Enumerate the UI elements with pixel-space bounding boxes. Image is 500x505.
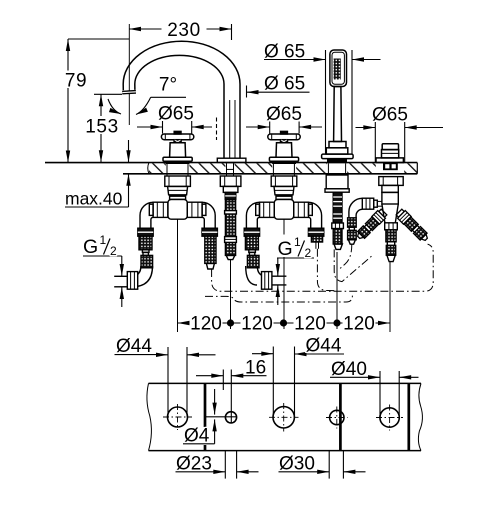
handle1 right braided hose [205,236,216,263]
dim16 left arrow [196,375,223,377]
angle 7 deg leader line [151,96,186,98]
dia65 handle2 left extent tick [269,122,271,134]
dia65 handle2 right arrow [299,126,322,128]
dia65 shower left extent line [325,50,327,154]
valve body handle1 [138,176,218,268]
bottom view bar top edge [149,382,422,384]
spout flange [217,158,246,162]
diverter center chain [385,223,398,262]
through-deck sleeve handle1 [167,163,346,176]
reference line top of spout [68,38,129,40]
hole circle 3 dia44 [273,407,294,428]
dia65 diverter left extent line [374,122,376,162]
dia65 spout left extent tick dashed [216,118,218,141]
dia23 ext line b [236,451,238,479]
dia40 underline+arrow [330,376,380,378]
hand shower head [322,50,354,163]
shower union block [326,175,348,189]
dia65 handle1 left extent tick [162,121,164,134]
dia65 diverter left arrow [356,127,376,129]
angle 7 deg right arc [136,97,151,114]
routing hose line handle1 [205,244,433,302]
svg-text:2: 2 [110,244,117,258]
routing hose line lower jog [205,293,352,302]
svg-text:Ø65: Ø65 [158,104,194,125]
svg-text:1: 1 [100,233,107,247]
handle2 [268,131,300,164]
dia65 handle2 left arrow [246,126,270,128]
deck bottom edge [123,173,417,175]
svg-text:Ø40: Ø40 [331,359,367,380]
svg-text:230: 230 [167,20,201,41]
max40 lower arrow [128,174,130,207]
dia4 tick [205,416,237,418]
svg-text:Ø 65: Ø 65 [264,74,305,95]
dia65 diverter right arrow [405,127,443,129]
dim16 ext line b [230,370,232,424]
diverter left port hex [362,198,373,209]
svg-text:G: G [278,238,293,260]
hole circle 1 dia44 [168,407,188,427]
dia30 ext line a [328,451,330,479]
centerline handle1 [177,219,179,332]
diverter body [382,192,398,204]
spout inner arc [135,55,224,100]
spout right leg outer wall [239,100,241,158]
hand shower wand [334,87,342,142]
dimension 79 line [67,39,69,163]
G half 2 up arrow [277,285,279,305]
dia65 shower right extent line [351,50,353,154]
dim16 ext line a [222,370,224,391]
crosshair hole4 [326,417,348,419]
G half 2 underline [277,257,314,259]
dia4 lower arrow [214,419,216,443]
centerline handle2 [283,219,285,329]
svg-text:16: 16 [245,358,266,379]
centerline diverter [389,262,391,332]
svg-text:Ø65: Ø65 [266,104,302,125]
svg-text:120: 120 [190,314,222,335]
dim16 underline+arrow [231,375,266,377]
dia44 mid ext line b [294,347,296,417]
svg-text:120: 120 [343,314,375,335]
dia40 ext line b [398,371,400,417]
crosshair hole3 [269,416,299,418]
dia65 spout label underline+leader [247,91,310,93]
valve body handle2 [244,176,324,268]
svg-text:153: 153 [85,117,119,138]
spout outlet rim [122,90,136,95]
handle2 left elbow to G half [257,266,266,276]
handle1 [161,131,193,164]
dimension 120 station dot shower [333,319,340,326]
spout right leg inner line B [234,100,236,158]
diverter knob [376,144,403,163]
G half 1 underline [83,255,122,257]
svg-text:Ø44: Ø44 [116,336,152,357]
through-deck sleeve handle2 [272,164,274,176]
hole circle 5 dia40 [380,408,399,427]
svg-text:max.40: max.40 [65,189,123,209]
through-deck block diverter [383,163,398,170]
dimension 120 station dot spout [227,319,234,326]
svg-text:Ø4: Ø4 [184,426,210,447]
dia23 arrow right [212,471,225,473]
svg-text:79: 79 [65,71,87,92]
hole circle 2 dia23 [225,412,236,423]
crosshair hole1 [163,416,192,418]
dia23 underline [176,471,213,473]
routing hose line handle2 [317,249,336,291]
dimension 230 extension line right [231,24,233,40]
joint thick line left [205,383,409,450]
dia65 shower label underline+leader [264,59,326,61]
handle1 left elbow to G half [131,266,141,276]
dimension 120 row line [178,322,391,324]
dia65 handle1 right arrow [192,126,212,128]
dia65 shower right arrow [352,59,381,61]
spout shank bracket [220,176,241,186]
diverter mounting nut [379,177,403,186]
deck left break edge [148,163,149,174]
dia40 right arrow [399,376,418,378]
G half 1 up arrow [121,287,123,307]
dimension 153 line [100,94,102,162]
deck top edge [45,162,417,164]
bottom view right break edge [418,383,422,450]
diverter right angled arm [395,208,430,243]
dia65 handle1 left arrow [137,126,163,128]
G half 1 down arrow [121,256,123,276]
dia23 ext line a [224,451,226,479]
dimension 230 extension line left [128,24,130,125]
joint thick line middle [339,383,342,450]
svg-text:2: 2 [305,246,312,260]
max40 upper arrow [128,140,130,162]
angle 7 deg left arc [108,99,121,114]
reference line outlet level [94,93,122,95]
dia44 left arrow left [187,354,216,356]
spout right leg inner line A [229,100,231,158]
dia44 mid underline+arrow [295,353,345,355]
svg-text:7°: 7° [159,75,177,96]
hand shower base [329,142,346,148]
svg-text:1: 1 [294,235,301,249]
dia30 arrow left [343,471,365,473]
joint thick line right [407,383,410,450]
max40 underline [65,206,129,208]
centerline spout [230,259,232,329]
G half 2 down arrow [277,258,279,276]
bottom view left break edge [147,383,151,450]
dia44 mid arrow left side [252,353,273,355]
dia44 left ext line b [186,347,188,417]
deck hatch segments [149,163,417,173]
svg-text:Ø23: Ø23 [176,453,212,474]
svg-text:120: 120 [294,314,326,335]
dia65 diverter right extent line [404,122,406,162]
dia4 upper arrow [214,389,216,415]
diverter left port elbow down [349,198,362,218]
handle2 right short hose [311,236,322,242]
svg-text:Ø44: Ø44 [306,336,342,357]
dimension 120 station dot handle2 [280,319,287,326]
dia44 left arrow right [157,354,168,356]
dia44 left underline [115,354,158,356]
through-deck sleeve shower [327,163,329,175]
spout outer arc [123,41,240,100]
dia65 handle1 right extent tick [191,121,193,134]
dia65 spout right extent tick [246,86,248,98]
dia65 handle2 right extent tick [298,122,300,134]
dia30 underline [279,471,318,473]
dia23 arrow left [237,471,259,473]
svg-text:120: 120 [241,314,273,335]
svg-text:Ø 65: Ø 65 [264,42,305,63]
dia40 ext line a [379,371,381,417]
dia44 left ext line a [167,347,169,417]
dia30 arrow right [317,471,329,473]
diverter left angled arm [355,208,388,241]
hole circle 4 dia30 [330,410,344,424]
svg-text:Ø30: Ø30 [279,453,315,474]
svg-text:Ø65: Ø65 [372,105,408,126]
dimension 230 line [129,28,232,30]
through-deck sleeve spout [226,163,228,176]
dia30 ext line b [342,451,344,479]
spout right leg inner wall [223,100,225,158]
crosshair hole5 [376,417,403,419]
diverter left drop chain [348,218,357,227]
svg-text:G: G [83,236,98,258]
dia4 underline [183,443,215,445]
routing hose line shower [334,249,373,281]
dia44 mid ext line a [272,347,274,417]
bottom view bar bottom edge [149,450,422,452]
centerline shower [336,252,338,329]
routing hose line diverter left [339,244,352,269]
